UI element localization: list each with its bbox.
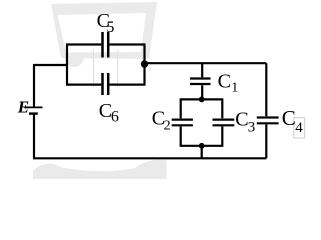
svg-text:C: C <box>282 106 296 130</box>
svg-text:2: 2 <box>164 118 171 133</box>
svg-text:1: 1 <box>231 80 238 95</box>
svg-text:3: 3 <box>248 119 256 135</box>
svg-text:5: 5 <box>106 19 114 36</box>
svg-text:C: C <box>218 71 231 93</box>
svg-text:E: E <box>17 98 29 117</box>
svg-text:6: 6 <box>111 108 119 125</box>
svg-text:C: C <box>235 109 248 131</box>
svg-text:4: 4 <box>295 120 303 136</box>
